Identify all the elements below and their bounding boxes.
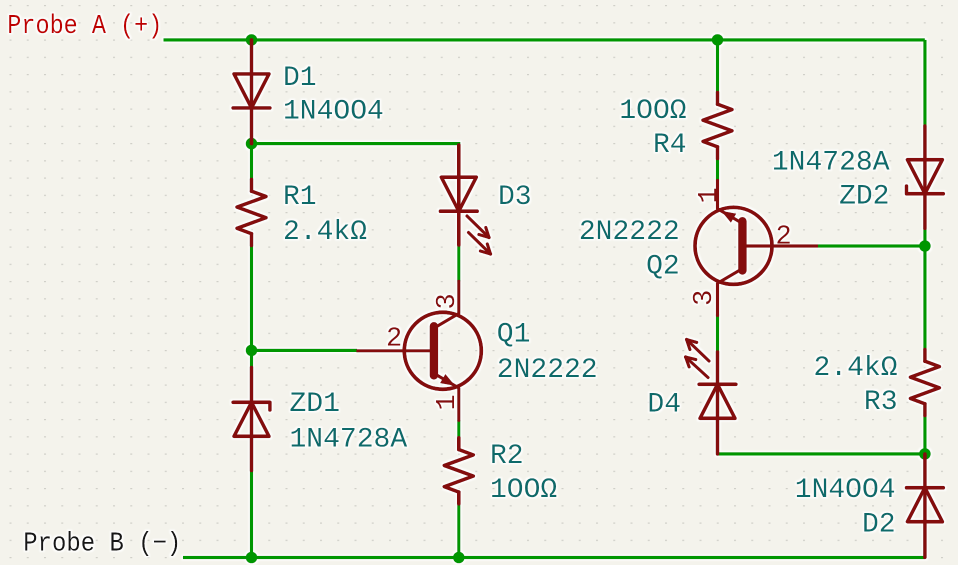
svg-text:Probe A (+): Probe A (+) [7,12,162,42]
wire D4 bottom horizontal [718,452,925,455]
svg-text:2: 2 [776,223,792,253]
svg-text:2.4kΩ: 2.4kΩ [283,217,367,248]
svg-text:2: 2 [386,324,402,354]
svg-text:1N4728A: 1N4728A [290,424,408,455]
diode ZD2 1N4728A zener [907,126,944,228]
wire R3 top [923,246,926,350]
diode ZD1 1N4728A zener [233,368,270,471]
wire D3 to Q1 collector [457,245,460,281]
junction R1 / Q1 base / ZD1 [246,345,258,357]
svg-text:1N4OO4: 1N4OO4 [795,475,896,506]
svg-text:R1: R1 [283,182,317,213]
wire R2 bottom [457,504,460,558]
diode D4 LED [699,352,736,454]
svg-text:3: 3 [433,293,463,309]
svg-text:1OOΩ: 1OOΩ [490,475,557,506]
diode D3 LED [440,145,477,245]
wire Q1 base [252,349,358,352]
wire Q2 pin3 to D4 [716,314,719,352]
svg-text:D3: D3 [498,182,532,213]
wire R3 bottom [923,416,926,454]
resistor R3 [910,350,939,416]
svg-text:2.4kΩ: 2.4kΩ [813,353,897,384]
transistor Q1 2N2222 [404,281,481,420]
svg-text:D2: D2 [862,510,896,541]
transistor Q2 2N2222 [695,181,772,316]
svg-text:R3: R3 [864,387,898,418]
junction bottom rail / ZD1 [246,552,258,564]
svg-text:3: 3 [690,290,720,306]
svg-text:Probe B (−): Probe B (−) [23,530,181,560]
wire R4 top [716,40,719,93]
wire R1 bottom to base junction [250,246,253,351]
junction top rail / R4 [712,34,724,46]
svg-text:ZD1: ZD1 [290,389,340,420]
LED D3 arrows [467,216,491,254]
svg-text:1N4728A: 1N4728A [772,147,890,178]
wire Q2 base pin (red) [742,244,818,247]
svg-text:R2: R2 [490,441,524,472]
svg-text:R4: R4 [653,130,687,161]
wire top rail Probe A [164,38,925,41]
wire bottom rail Probe B [183,556,925,559]
resistor R4 [703,93,732,159]
svg-text:D1: D1 [283,63,317,94]
LED D4 arrows [686,340,709,378]
svg-text:D4: D4 [647,390,681,421]
svg-text:1OOΩ: 1OOΩ [619,96,686,127]
svg-text:Q1: Q1 [497,319,531,350]
wire junction to D3 branch [252,144,459,146]
wire ZD1 bottom [250,471,253,558]
svg-text:2N2222: 2N2222 [579,217,680,248]
junction Q2 base / ZD2 / R3 [919,240,931,252]
diode D2 1N4004 [907,454,944,557]
junction top rail / D1 [246,34,258,46]
svg-text:1N4OO4: 1N4OO4 [283,96,384,127]
wire R4 to Q2 pin1 [716,159,719,181]
wire Q2 base to right rail [818,244,925,247]
diode D1 1N4004 [233,40,270,144]
svg-text:Q2: Q2 [646,252,680,283]
junction bottom rail / R2 [453,552,465,564]
svg-text:ZD2: ZD2 [839,182,889,213]
wire R1 top [250,144,253,180]
svg-text:1: 1 [433,394,463,410]
junction D4 wire / R3 / D2 [919,448,931,460]
svg-text:2N2222: 2N2222 [497,355,598,386]
wire ZD1 top [250,350,253,367]
svg-text:1: 1 [695,187,725,203]
resistor R2 [444,438,473,504]
wire Q1 base pin (red) [356,349,434,352]
wire ZD2 to Q2 junction [923,228,926,246]
resistor R1 [237,179,266,245]
wire Q1 emitter to R2 [457,420,460,438]
wire right drop to ZD2 [923,40,926,126]
junction D1 / R1 / D3 branch [246,138,258,150]
